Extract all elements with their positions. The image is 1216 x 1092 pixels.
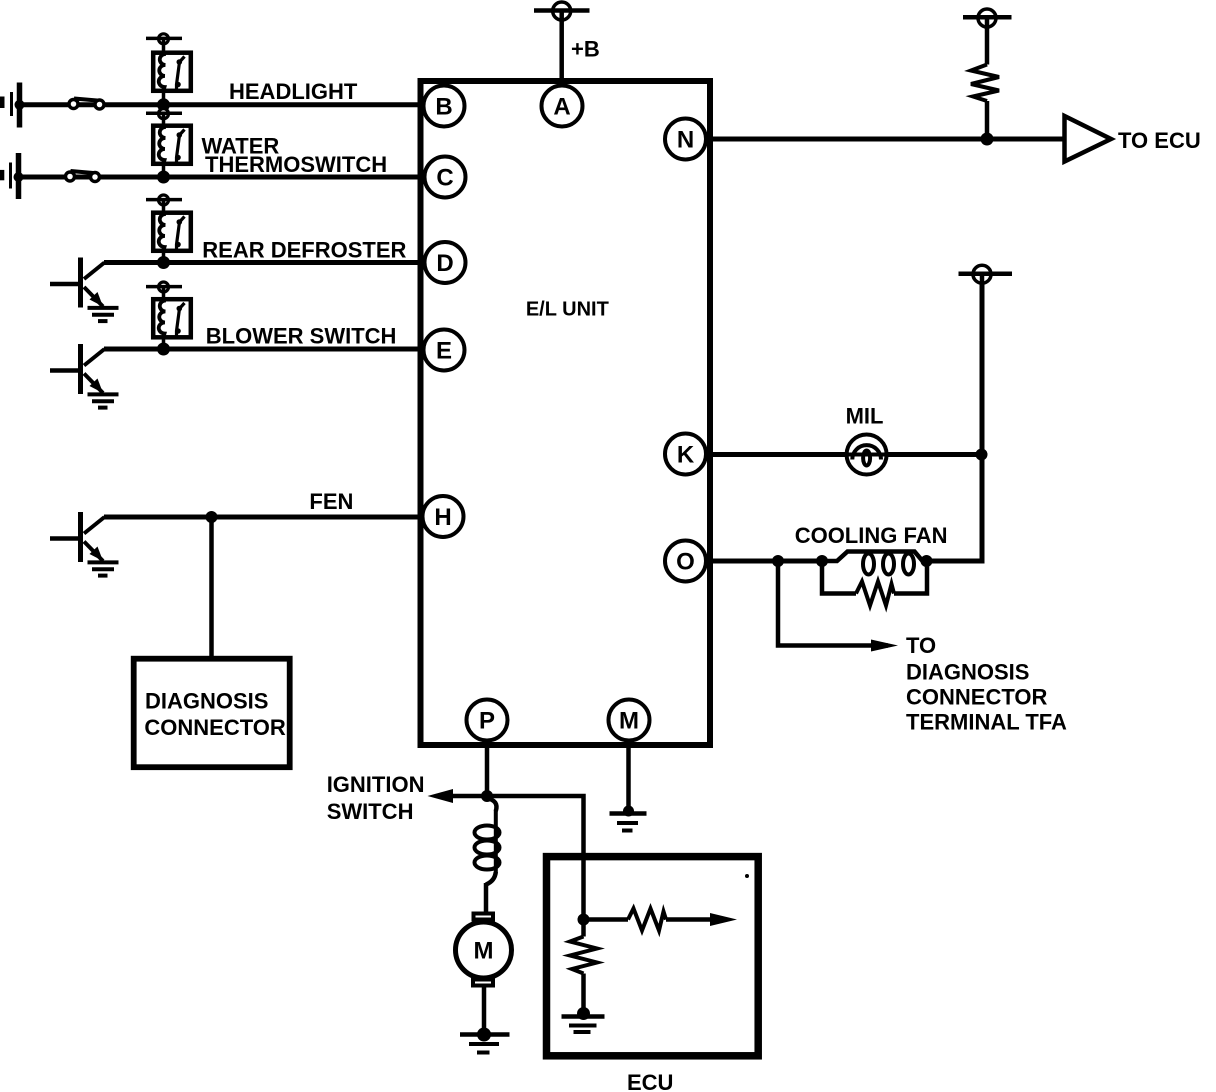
svg-text:+B: +B <box>571 37 600 62</box>
svg-text:IGNITION: IGNITION <box>327 772 425 797</box>
svg-text:DIAGNOSIS: DIAGNOSIS <box>145 689 268 714</box>
svg-text:TO ECU: TO ECU <box>1118 128 1201 153</box>
svg-text:M: M <box>619 708 639 735</box>
svg-text:E/L UNIT: E/L UNIT <box>526 299 609 321</box>
svg-text:COOLING FAN: COOLING FAN <box>795 523 948 548</box>
svg-text:CONNECTOR: CONNECTOR <box>144 715 285 740</box>
svg-text:K: K <box>677 442 695 469</box>
svg-text:H: H <box>434 504 451 531</box>
svg-text:D: D <box>436 250 453 277</box>
svg-text:SWITCH: SWITCH <box>327 799 414 824</box>
svg-text:E: E <box>436 338 452 365</box>
svg-text:B: B <box>435 94 452 121</box>
svg-text:O: O <box>676 549 695 576</box>
svg-text:A: A <box>553 94 570 121</box>
svg-text:P: P <box>479 708 495 735</box>
svg-text:TERMINAL TFA: TERMINAL TFA <box>906 710 1067 735</box>
svg-text:ECU: ECU <box>627 1070 673 1092</box>
svg-text:THERMOSWITCH: THERMOSWITCH <box>205 152 387 177</box>
svg-text:M: M <box>474 938 494 965</box>
svg-text:FEN: FEN <box>309 489 353 514</box>
svg-text:TO: TO <box>906 633 936 658</box>
svg-text:MIL: MIL <box>846 404 884 429</box>
svg-text:CONNECTOR: CONNECTOR <box>906 685 1047 710</box>
svg-text:DIAGNOSIS: DIAGNOSIS <box>906 660 1029 685</box>
svg-text:HEADLIGHT: HEADLIGHT <box>229 79 358 104</box>
svg-text:N: N <box>677 127 694 154</box>
svg-text:C: C <box>436 165 453 192</box>
svg-text:BLOWER SWITCH: BLOWER SWITCH <box>206 324 397 349</box>
svg-text:REAR DEFROSTER: REAR DEFROSTER <box>202 238 406 263</box>
